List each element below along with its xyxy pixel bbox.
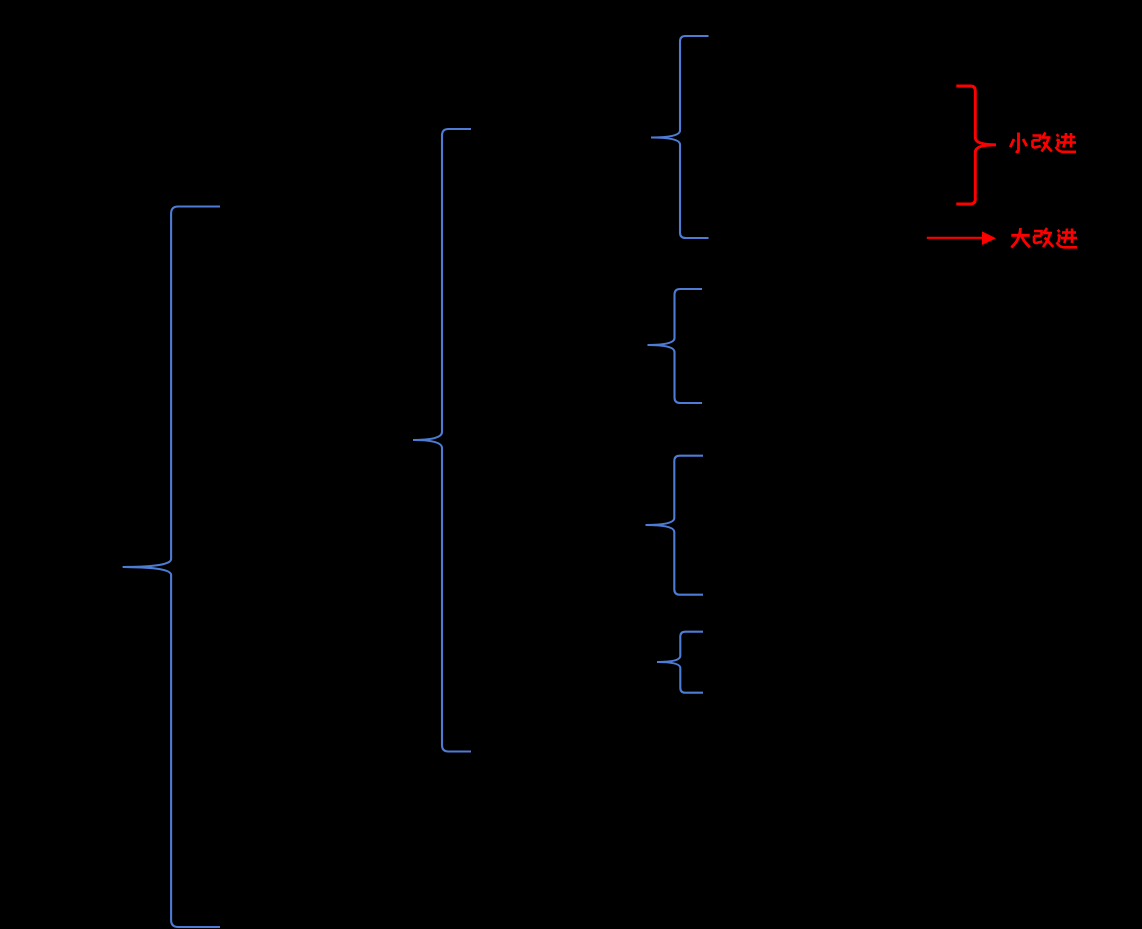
brace B3b: level-3 group 2 [648,289,703,403]
red annotation text: 小改进 [1010,133,1027,152]
brace B3a: level-3 group 1 [651,36,709,238]
red annotation text: 大改进 [1011,228,1030,248]
red arrow shaft [927,237,983,239]
brace B1: level-1 group (large left brace) [123,207,220,928]
brace B2: level-2 group (middle brace) [413,129,471,752]
brace B3c: level-3 group 3 [646,456,704,595]
red annotation brace (right brace, small improvement group) [956,86,996,204]
brace B3d: level-3 group 4 [657,632,703,693]
red arrow head [982,231,996,245]
